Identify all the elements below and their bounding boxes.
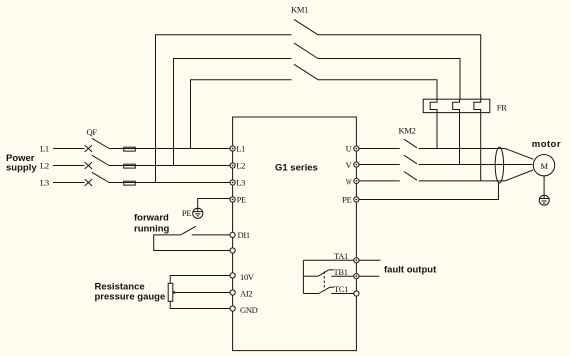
- wire TB1 row to terminal: [331, 275, 356, 277]
- wire PE terminal to earth: [198, 199, 233, 212]
- svg-text:KM2: KM2: [399, 126, 416, 136]
- wire U row to cable: [419, 148, 505, 150]
- svg-text:PE: PE: [182, 208, 191, 218]
- cable ellipse: [495, 147, 503, 183]
- terminal L1: [230, 146, 235, 151]
- svg-text:M: M: [540, 161, 548, 171]
- svg-text:L3: L3: [236, 177, 245, 187]
- contactor KM1 pole 2 blade: [294, 43, 318, 58]
- thermal relay FR box: [423, 99, 490, 112]
- TB1 contact tick: [329, 269, 334, 271]
- svg-text:DI1: DI1: [238, 230, 250, 240]
- wire FR out 2 to V row: [459, 113, 461, 165]
- svg-text:supply: supply: [6, 163, 37, 174]
- svg-text:AI2: AI2: [240, 289, 252, 299]
- svg-text:L1: L1: [236, 143, 245, 153]
- terminal L2: [230, 163, 235, 168]
- terminal COM blank: [230, 248, 235, 253]
- FR heater element 3: [474, 99, 481, 112]
- breaker QF pole 2 X contact: [85, 162, 92, 169]
- wire bypass 1 top to FR: [318, 35, 481, 99]
- wire 10V to pot top: [170, 276, 232, 284]
- svg-text:pressure gauge: pressure gauge: [95, 292, 166, 303]
- terminal TC1: [354, 291, 359, 296]
- FR heater element 1: [430, 99, 437, 112]
- FR heater element 2: [453, 99, 460, 112]
- terminal DI1: [230, 232, 235, 237]
- terminal 10V: [230, 273, 235, 278]
- svg-text:KM1: KM1: [291, 5, 308, 15]
- terminal U: [354, 146, 359, 151]
- wire bypass 1 riser from L3 row: [156, 35, 292, 183]
- svg-text:motor: motor: [532, 139, 561, 150]
- wire motor to earth: [543, 176, 545, 195]
- earth symbol PE: [193, 208, 203, 218]
- wire TB1 common from rail: [303, 275, 318, 277]
- wire U to motor: [505, 149, 533, 160]
- fault output left rail: [302, 260, 304, 293]
- svg-text:PE: PE: [342, 195, 351, 205]
- wire FR out 3 to W row: [480, 113, 482, 181]
- svg-text:L2: L2: [40, 160, 49, 170]
- wire L3 to fuse: [109, 182, 233, 184]
- wire PE row to cable: [356, 182, 498, 200]
- terminal V: [354, 162, 359, 167]
- svg-text:10V: 10V: [240, 272, 255, 282]
- wire W row to cable: [419, 180, 505, 182]
- potentiometer body: [168, 283, 173, 301]
- wire AI2 to pot wiper: [174, 292, 233, 294]
- svg-text:L1: L1: [40, 143, 49, 153]
- svg-text:forward: forward: [134, 213, 169, 224]
- svg-text:V: V: [346, 160, 353, 170]
- wire TA1 row: [303, 259, 356, 261]
- motor M circle: [533, 155, 554, 176]
- wire bypass 2 top to FR: [318, 59, 460, 100]
- wire L2 to fuse: [109, 165, 233, 167]
- svg-text:U: U: [346, 144, 352, 154]
- svg-text:L2: L2: [236, 160, 245, 170]
- contactor KM2 pole 1 blade: [404, 139, 417, 148]
- fuse F2: [124, 164, 136, 168]
- wire TC1 common from rail: [303, 293, 318, 295]
- svg-text:L3: L3: [40, 177, 49, 187]
- terminal PE left: [230, 197, 235, 202]
- terminal TA1: [354, 258, 359, 263]
- wire V row from terminal: [356, 164, 399, 166]
- terminal AI2: [230, 290, 235, 295]
- pot wiper arrow: [173, 291, 175, 293]
- wire TC1 row to terminal: [331, 293, 356, 295]
- terminal TB1: [354, 274, 359, 279]
- wire W row from terminal: [356, 180, 399, 182]
- svg-text:TB1: TB1: [334, 267, 348, 277]
- wire U row from terminal: [356, 148, 399, 150]
- terminal GND: [230, 306, 235, 311]
- svg-text:W: W: [346, 176, 352, 186]
- relay TC1 blade: [319, 287, 330, 293]
- wire FR out 1 to U row: [436, 113, 438, 149]
- contactor KM1 pole 3 blade: [294, 64, 318, 79]
- wire bypass 3 riser from L1 row: [191, 80, 292, 149]
- switch forward-running blade: [181, 226, 196, 235]
- svg-text:TC1: TC1: [334, 284, 348, 294]
- relay TB1 blade: [318, 270, 329, 276]
- wire W to motor: [505, 170, 533, 181]
- breaker QF pole 3 X contact: [85, 179, 92, 186]
- svg-text:PE: PE: [237, 195, 246, 205]
- svg-text:running: running: [134, 223, 170, 234]
- wire GND to pot bottom: [170, 301, 232, 308]
- svg-text:FR: FR: [497, 103, 507, 113]
- terminal PE right: [354, 197, 359, 202]
- breaker QF pole 3 blade: [92, 172, 109, 182]
- breaker QF pole 1 blade: [92, 138, 109, 148]
- terminal W: [354, 178, 359, 183]
- earth symbol under motor: [539, 195, 549, 205]
- wire switch left leg: [154, 235, 233, 251]
- contactor KM2 pole 2 blade: [404, 155, 417, 164]
- terminal L3: [230, 180, 235, 185]
- wire TA1 stub right: [356, 259, 380, 261]
- wire L2 row input: [53, 165, 85, 167]
- breaker QF pole 2 blade: [92, 155, 109, 165]
- svg-text:TA1: TA1: [334, 251, 348, 261]
- fuse F3: [124, 181, 136, 185]
- inverter G1 series box: [233, 117, 357, 351]
- svg-text:G1 series: G1 series: [275, 163, 318, 174]
- breaker QF pole 1 X contact: [85, 145, 92, 152]
- wire L1 row input: [53, 148, 85, 150]
- wire L1 to fuse: [109, 148, 233, 150]
- relay mechanical link dashed: [323, 272, 325, 290]
- wire TB1 stub right: [356, 275, 379, 277]
- fuse F1: [124, 147, 136, 151]
- wire DI1 row: [192, 234, 233, 236]
- contactor KM2 pole 3 blade: [404, 172, 417, 181]
- wire L3 row input: [53, 182, 85, 184]
- contactor KM1 pole 1 blade: [294, 19, 318, 34]
- svg-text:GND: GND: [240, 305, 258, 315]
- svg-text:fault output: fault output: [384, 265, 437, 276]
- svg-text:QF: QF: [87, 127, 98, 137]
- wire bypass 2 riser from L2 row: [174, 59, 292, 166]
- wire bypass 3 top to FR: [318, 80, 437, 100]
- wire V row to motor: [419, 164, 533, 166]
- TC1 contact tick: [330, 286, 334, 288]
